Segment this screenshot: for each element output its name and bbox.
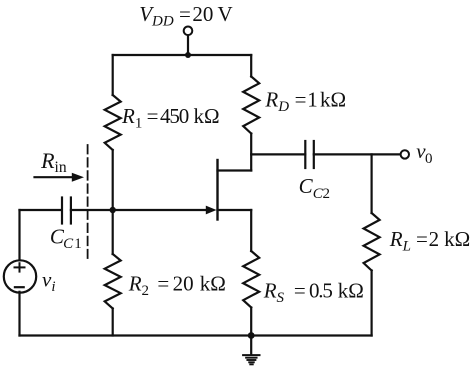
- svg-text:R2=20kΩ: R2=20kΩ: [128, 272, 226, 300]
- svg-text:Rin: Rin: [40, 148, 67, 176]
- svg-text:CC2: CC2: [299, 174, 330, 202]
- svg-text:v0: v0: [416, 139, 432, 167]
- svg-text:RL=2kΩ: RL=2kΩ: [389, 227, 470, 255]
- svg-text:CC1: CC1: [50, 225, 82, 253]
- svg-text:RD=1kΩ: RD=1kΩ: [264, 88, 346, 116]
- svg-text:RS=0.5kΩ: RS=0.5kΩ: [263, 278, 364, 306]
- svg-text:R1=450kΩ: R1=450kΩ: [121, 104, 220, 132]
- svg-text:VDD=20V: VDD=20V: [139, 2, 232, 30]
- svg-text:vi: vi: [42, 268, 56, 296]
